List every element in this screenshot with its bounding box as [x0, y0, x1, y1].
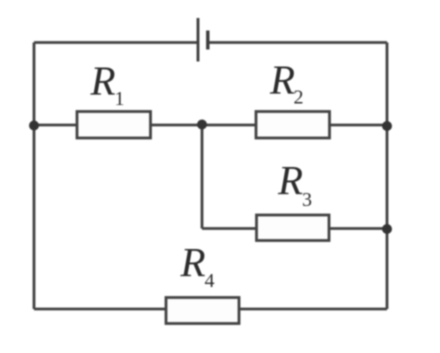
battery B1 short plate	[206, 31, 209, 50]
battery B1 long plate	[197, 18, 200, 62]
svg-text:R: R	[90, 58, 116, 104]
node junction right lower	[382, 224, 392, 234]
label R1	[90, 58, 125, 111]
label R2	[269, 57, 304, 109]
label R3	[277, 157, 312, 211]
svg-text:1: 1	[115, 88, 125, 110]
label R4	[180, 239, 215, 292]
wire bottom	[34, 308, 387, 311]
node junction left	[29, 121, 39, 131]
wire middle row (R1-R2 row)	[34, 124, 387, 127]
node junction right upper	[382, 121, 392, 131]
resistor R4 body	[166, 298, 239, 324]
wire top-right segment	[208, 41, 387, 44]
resistor R3 body	[257, 215, 330, 241]
wire top-left segment	[34, 41, 198, 44]
wire middle vertical branch	[201, 125, 204, 229]
node junction middle	[197, 120, 207, 130]
svg-text:3: 3	[302, 189, 312, 211]
wire right side	[386, 43, 389, 310]
resistor R2 body	[256, 112, 330, 139]
svg-text:4: 4	[205, 270, 215, 292]
svg-text:R: R	[277, 157, 303, 203]
svg-text:2: 2	[294, 87, 304, 109]
wire R3 row	[202, 227, 387, 230]
wire left side	[33, 43, 36, 310]
svg-text:R: R	[180, 239, 206, 285]
resistor R1 body	[77, 112, 151, 139]
svg-text:R: R	[269, 57, 295, 103]
